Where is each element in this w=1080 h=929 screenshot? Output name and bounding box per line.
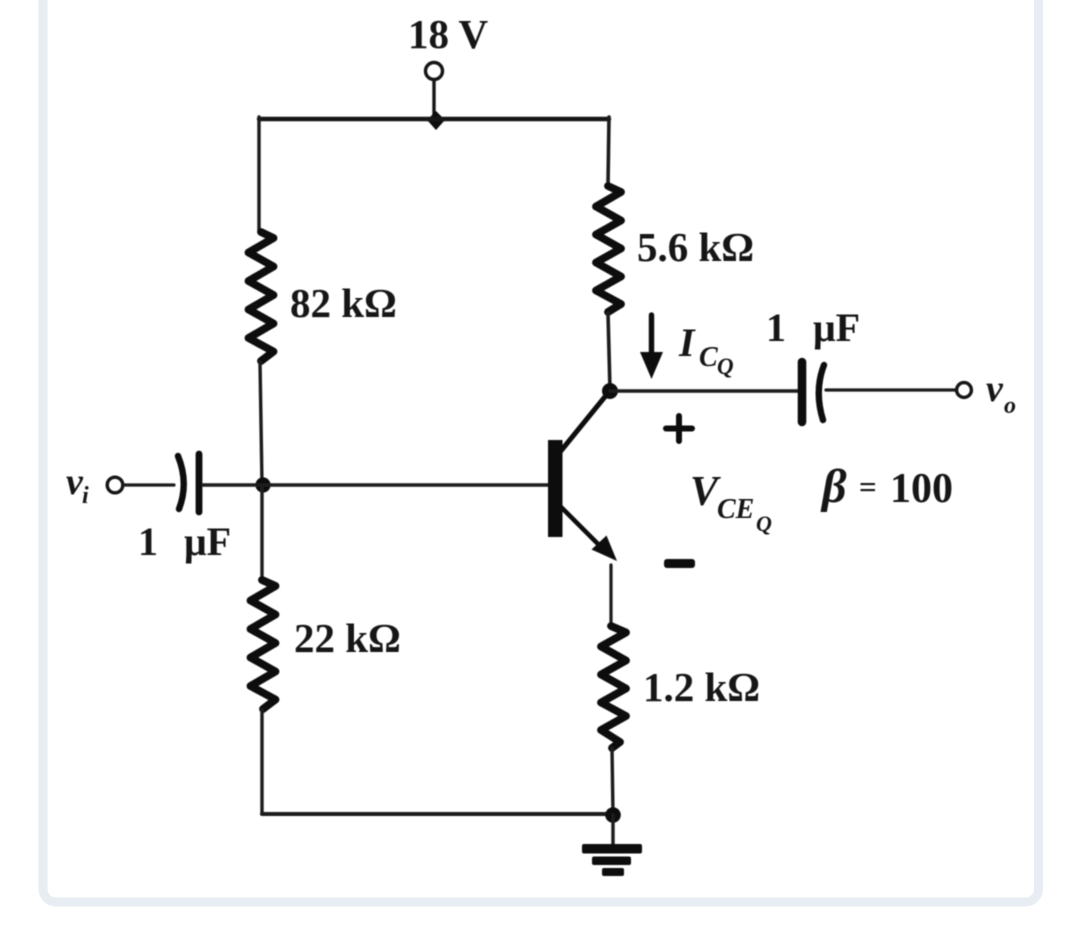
svg-text:100: 100 bbox=[890, 466, 953, 512]
current arrow I_CQ bbox=[640, 315, 663, 379]
input terminal (open circle) bbox=[107, 477, 123, 493]
resistor RE 1.2 kOhm bbox=[601, 626, 626, 748]
svg-text:Q: Q bbox=[756, 511, 772, 536]
wire collector lead bbox=[608, 313, 610, 390]
wire top rail bbox=[259, 117, 609, 121]
svg-text:18 V: 18 V bbox=[408, 11, 489, 57]
wire left branch middle bbox=[260, 362, 262, 484]
wire C2 to output terminal bbox=[826, 388, 956, 391]
svg-text:5.6 kΩ: 5.6 kΩ bbox=[637, 224, 754, 270]
supply terminal (open circle) bbox=[426, 63, 443, 80]
wire left branch bottom bbox=[260, 710, 263, 813]
svg-text:I: I bbox=[678, 320, 696, 365]
wire ground stem bbox=[611, 815, 614, 848]
svg-text:1: 1 bbox=[766, 305, 786, 350]
svg-text:C: C bbox=[699, 342, 718, 373]
svg-text:o: o bbox=[1004, 393, 1016, 419]
svg-text:1.2 kΩ: 1.2 kΩ bbox=[643, 664, 760, 710]
svg-text:CE: CE bbox=[717, 494, 754, 525]
resistor R2 22 kOhm bbox=[251, 580, 276, 709]
wire left branch upper bbox=[257, 117, 260, 231]
node C junction dot (collector) bbox=[602, 383, 618, 399]
svg-text:Q: Q bbox=[717, 354, 734, 379]
wire collector to C2 bbox=[610, 389, 799, 392]
svg-text:β: β bbox=[820, 460, 847, 513]
wire right branch upper bbox=[608, 117, 609, 185]
transistor Q1 collector stroke bbox=[560, 393, 608, 452]
resistor R1 82 kOhm bbox=[249, 232, 274, 361]
svg-text:22 kΩ: 22 kΩ bbox=[294, 615, 401, 661]
label plus sign bbox=[666, 416, 692, 441]
svg-text:82 kΩ: 82 kΩ bbox=[290, 280, 397, 326]
wire base lead bbox=[203, 483, 548, 487]
label v_i bbox=[66, 461, 89, 509]
label beta = 100 bbox=[820, 460, 953, 513]
wire input lead bbox=[124, 483, 174, 486]
svg-text:μF: μF bbox=[184, 519, 231, 564]
ground symbol bbox=[582, 844, 642, 876]
wire emitter lead bbox=[609, 565, 612, 625]
value label 1 uF (input) bbox=[138, 519, 231, 564]
resistor RC 5.6 kOhm bbox=[596, 186, 621, 312]
svg-text:v: v bbox=[986, 368, 1004, 410]
junction dot at Vcc node bbox=[427, 111, 445, 130]
label I_CQ bbox=[678, 320, 734, 379]
node B junction dot (base node) bbox=[255, 477, 270, 492]
svg-text:i: i bbox=[82, 483, 89, 509]
label V_CEQ bbox=[690, 469, 772, 536]
capacitor C2 1 uF (output, curved plate) bbox=[802, 362, 824, 422]
capacitor C1 1 uF (input, curved plate) bbox=[178, 454, 199, 512]
label v_o bbox=[986, 368, 1016, 419]
wire supply stub bbox=[432, 80, 435, 119]
svg-text:1: 1 bbox=[138, 519, 158, 564]
output terminal (open circle) bbox=[957, 383, 972, 398]
wire left branch lower bbox=[260, 485, 263, 579]
transistor Q1 emitter stroke with arrow bbox=[560, 506, 617, 561]
node E junction dot (emitter/ground node) bbox=[605, 807, 621, 823]
svg-text:=: = bbox=[859, 469, 877, 504]
label 1 uF (output) bbox=[766, 305, 860, 350]
wire emitter bottom bbox=[612, 748, 613, 814]
svg-text:μF: μF bbox=[813, 305, 860, 350]
transistor Q1 base bar bbox=[548, 440, 563, 537]
label minus sign bbox=[664, 559, 695, 568]
wire bottom rail bbox=[262, 812, 613, 816]
